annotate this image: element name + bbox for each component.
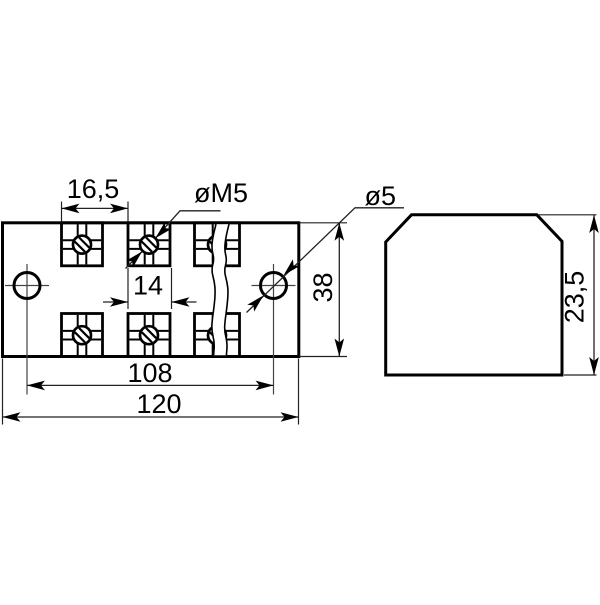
left mounting hole center lines (5, 264, 49, 395)
dimension 14 line tails (103, 301, 197, 303)
svg-text:23,5: 23,5 (560, 271, 590, 324)
terminal B2 channels (129, 315, 168, 355)
terminal B2 screw slot (142, 328, 156, 342)
dimension 120 arrow right (281, 412, 299, 422)
terminal T2 square (128, 223, 170, 266)
dimension 16,5 arrow left (62, 204, 80, 214)
dimension 38 arrow up (335, 223, 345, 241)
terminal T3 screw slot (210, 237, 224, 251)
terminal T1 screw head (73, 236, 91, 254)
dimension 14 arrow left (110, 297, 128, 307)
terminal B2 square (128, 314, 170, 357)
terminal T1 square (62, 223, 103, 266)
svg-text:38: 38 (308, 272, 338, 302)
terminal T2 channels (129, 224, 168, 264)
dimension 38 line (338, 223, 340, 357)
terminal T2 screw slot (142, 237, 156, 251)
leader o5 arrow lower (247, 296, 263, 312)
break line right (225, 224, 229, 355)
leader oM5 arrow upper (156, 222, 172, 238)
terminal B2 screw head (140, 326, 158, 344)
dimension 108 arrow right (256, 381, 274, 391)
dimension 108 arrow left (27, 381, 45, 391)
leader o5 arrow upper (284, 259, 300, 275)
svg-text:108: 108 (127, 358, 172, 388)
terminal B1 screw head (73, 326, 91, 344)
dimension 16,5 extension lines (62, 202, 129, 223)
leader o5 shoulder (247, 208, 405, 313)
svg-text:16,5: 16,5 (67, 174, 120, 204)
terminal B3 screw head (208, 326, 226, 344)
break band fill (212, 224, 229, 355)
dimension 16,5 line (62, 207, 129, 209)
terminal T1 screw slot (75, 237, 89, 251)
dimension 23,5 arrow down (589, 357, 599, 375)
svg-text:120: 120 (136, 389, 181, 419)
dimension 23,5 arrow up (589, 215, 599, 233)
right mounting hole (261, 273, 287, 299)
terminal T3 square (broken by break line) (195, 223, 240, 266)
terminal B3 square (broken by break line) (195, 314, 240, 357)
dimension 14 arrow right (172, 297, 190, 307)
dimension 38 extension lines (299, 223, 347, 357)
terminal B3 screw slot (210, 328, 224, 342)
dimension 16,5 arrow right (110, 204, 128, 214)
block body outline (front view) (3, 223, 299, 357)
dimension 23,5 extension lines (538, 215, 597, 375)
leader oM5 arrow lower (126, 252, 142, 268)
terminal T3 screw head (208, 236, 226, 254)
dimension 120 extension lines (3, 359, 299, 425)
side view outline (386, 215, 562, 375)
terminal T2 screw head (140, 236, 158, 254)
svg-text:14: 14 (133, 271, 163, 301)
dimension 14 extension lines (128, 268, 172, 309)
terminal T1 channels (63, 224, 101, 264)
dimension 38 arrow down (335, 339, 345, 357)
dimension 120 line (3, 416, 299, 418)
dimension 23,5 line (593, 215, 595, 375)
svg-text:ø5: ø5 (365, 181, 397, 211)
right mounting hole center lines (252, 264, 296, 395)
terminal B1 screw slot (75, 328, 89, 342)
left mounting hole (14, 273, 40, 299)
dimension 108 line (27, 384, 274, 386)
break line left (212, 224, 216, 355)
leader oM5 shoulder (126, 211, 221, 269)
terminal B1 square (62, 314, 103, 357)
terminal B3 channels (196, 315, 238, 355)
dimension 120 arrow left (3, 412, 21, 422)
svg-text:øM5: øM5 (194, 178, 248, 208)
terminal B1 channels (63, 315, 101, 355)
terminal T3 channels (196, 224, 238, 264)
